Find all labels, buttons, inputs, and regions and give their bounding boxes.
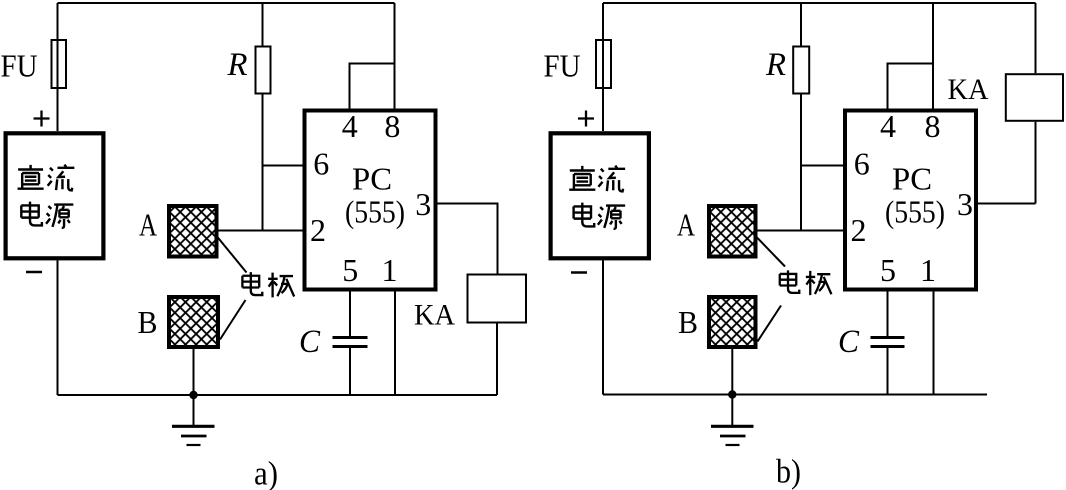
- wire top rail down to relay KA (b): [1035, 3, 1037, 73]
- svg-text:5: 5: [880, 252, 896, 288]
- svg-text:FU: FU: [1, 48, 38, 84]
- label + plus terminal (a): [34, 111, 50, 127]
- wire KA to bottom rail (a): [496, 324, 498, 396]
- label 直 (a): [18, 165, 44, 189]
- svg-text:1: 1: [920, 252, 936, 288]
- wire electrode B to bottom rail (a): [193, 349, 195, 395]
- svg-text:2: 2: [310, 212, 326, 248]
- electrode A crosshatched (a): [169, 206, 217, 257]
- wire pin 6 to R branch (a): [263, 165, 305, 167]
- wire R branch vertical (a): [262, 3, 264, 231]
- op-amp timer IC PC(555) box (a): [305, 111, 436, 290]
- op-amp timer IC PC(555) box (b): [845, 111, 976, 290]
- wire pin 8 to top rail (b): [932, 3, 934, 109]
- svg-text:a): a): [254, 456, 278, 490]
- pointer line electrode A to label (a): [217, 237, 247, 273]
- relay coil KA box (a): [468, 275, 527, 323]
- ground symbol bar 3 (b): [726, 444, 740, 446]
- svg-text:B: B: [138, 304, 158, 340]
- wire pin 5 to capacitor (a): [349, 292, 351, 337]
- label - minus terminal (a): [26, 271, 42, 274]
- wire pin 3 (b): [978, 203, 1036, 205]
- svg-text:PC: PC: [892, 161, 932, 197]
- svg-text:A: A: [139, 207, 157, 243]
- resistor R (b): [793, 47, 809, 94]
- svg-text:A: A: [677, 207, 695, 243]
- wire pin 6 to R branch (b): [801, 165, 845, 167]
- wire pin 1 to bottom rail (a): [394, 292, 396, 396]
- DC power supply box (a): [6, 133, 104, 258]
- junction dot (a): [189, 391, 197, 399]
- wire bottom rail (a): [58, 394, 498, 396]
- svg-text:3: 3: [415, 186, 431, 222]
- svg-text:FU: FU: [544, 48, 581, 84]
- wire junction to ground (b): [731, 395, 733, 426]
- svg-text:1: 1: [382, 252, 398, 288]
- svg-text:KA: KA: [948, 73, 989, 106]
- pointer line electrode A to label (b): [756, 237, 785, 267]
- wire junction to ground (a): [193, 395, 195, 425]
- wire top rail (a): [58, 2, 395, 4]
- ground symbol bar 2 (b): [720, 435, 746, 438]
- electrode B crosshatched (b): [709, 297, 756, 347]
- electrode A hatch fill (b): [710, 207, 755, 256]
- wire electrode B to bottom rail (b): [731, 349, 733, 395]
- label 流 (a): [48, 165, 75, 191]
- svg-text:PC: PC: [352, 161, 392, 197]
- electrode B hatch fill (b): [710, 298, 755, 346]
- svg-text:6: 6: [313, 145, 329, 181]
- label 极 of 电极 (b): [806, 271, 832, 295]
- wire relay KA down to pin 3 (b): [1035, 122, 1037, 204]
- ground symbol bar 2 (a): [181, 435, 207, 438]
- pointer line electrode B to label (b): [758, 306, 782, 342]
- svg-text:8: 8: [384, 108, 400, 144]
- label 极 of 电极 (a): [268, 273, 294, 298]
- electrode A crosshatched (b): [709, 206, 756, 257]
- svg-text:R: R: [227, 47, 248, 83]
- pointer line electrode B to label (a): [220, 300, 246, 340]
- ground symbol bar 1 (a): [172, 425, 215, 428]
- label 直 (b): [569, 166, 595, 190]
- svg-text:(555): (555): [345, 194, 405, 230]
- svg-text:B: B: [678, 304, 698, 340]
- svg-text:(555): (555): [885, 194, 945, 230]
- ground symbol bar 3 (a): [187, 444, 201, 446]
- svg-text:b): b): [776, 454, 801, 490]
- label 电 of 电极 (a): [242, 272, 262, 295]
- label 电 (b): [574, 203, 595, 227]
- svg-text:8: 8: [925, 108, 941, 144]
- svg-text:C: C: [299, 324, 321, 360]
- wire capacitor to bottom rail (a): [349, 348, 351, 395]
- wire capacitor to bottom rail (b): [887, 348, 889, 395]
- svg-text:KA: KA: [414, 299, 455, 332]
- label + plus terminal (b): [578, 111, 594, 127]
- svg-text:R: R: [765, 47, 786, 83]
- wire top rail (b): [603, 2, 1036, 4]
- wire power supply to bottom rail (a): [57, 260, 59, 395]
- DC power supply box (b): [551, 133, 649, 258]
- wire pin 1 to bottom rail (b): [933, 292, 935, 395]
- label 源 (b): [598, 206, 625, 229]
- svg-text:6: 6: [854, 145, 870, 181]
- fuse FU (b): [596, 40, 611, 88]
- wire left branch vertical through fuse (a): [57, 3, 59, 131]
- svg-text:4: 4: [342, 108, 358, 144]
- wire bottom rail (b): [603, 394, 987, 396]
- electrode A hatch fill (a): [170, 207, 216, 256]
- wire pin 2 from electrode A (b): [757, 230, 845, 232]
- svg-text:4: 4: [880, 108, 896, 144]
- label 源 (a): [46, 205, 73, 228]
- label - minus terminal (b): [571, 271, 587, 274]
- relay coil KA box (b): [1006, 74, 1063, 121]
- electrode B crosshatched (a): [169, 297, 218, 347]
- wire R branch vertical (b): [800, 3, 802, 231]
- wire pin 5 to capacitor (b): [887, 292, 889, 337]
- wire pin 2 from electrode A (a): [218, 230, 304, 232]
- wire pin 4 jog to pin 8 (b): [888, 64, 933, 109]
- capacitor C plates (a): [333, 338, 368, 347]
- label 电 of 电极 (b): [780, 270, 800, 293]
- junction dot (b): [728, 390, 736, 398]
- ground symbol bar 1 (b): [711, 425, 754, 428]
- label 电 (a): [21, 202, 42, 226]
- wire power supply to bottom rail (b): [602, 260, 604, 394]
- capacitor C plates (b): [871, 338, 905, 347]
- wire pin 8 to top rail (a): [394, 3, 396, 109]
- electrode B hatch fill (a): [170, 298, 217, 346]
- wire pin 4 jog to pin 8 (a): [350, 64, 394, 109]
- fuse FU (a): [52, 40, 67, 88]
- svg-text:2: 2: [851, 212, 867, 248]
- svg-text:5: 5: [342, 252, 358, 288]
- wire left branch vertical through fuse (b): [602, 3, 604, 131]
- label 流 (b): [598, 166, 625, 192]
- wire pin 3 to relay KA (a): [438, 204, 498, 274]
- resistor R (a): [256, 47, 271, 94]
- svg-text:3: 3: [957, 186, 973, 222]
- svg-text:C: C: [838, 324, 860, 360]
